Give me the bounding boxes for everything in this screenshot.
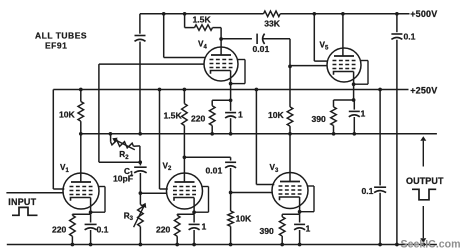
wire V2 suppressor wrap: [192, 187, 208, 215]
resistor 220 (V4 cathode): [191, 100, 215, 134]
svg-text:1: 1: [202, 221, 207, 231]
svg-text:0.1: 0.1: [97, 224, 109, 234]
svg-text:V2: V2: [163, 161, 172, 172]
junction dots on plate bus: [79, 132, 356, 136]
potentiometer R3: [124, 193, 147, 244]
resistor 390 (V3 cathode): [260, 214, 286, 244]
capacitor C1 10pF: [113, 162, 147, 193]
wire V4 screen from +500V: [164, 14, 206, 58]
svg-text:+250V: +250V: [410, 85, 437, 95]
junction dots on +500V rail: [162, 12, 399, 16]
wire V1 plate: [80, 134, 82, 182]
resistor 33K (in +500V rail): [264, 11, 281, 29]
tube V5 (EF91): [327, 48, 361, 82]
svg-text:V4: V4: [198, 40, 207, 51]
wire V4 cathode: [212, 71, 232, 103]
output pulse symbol: [412, 189, 436, 200]
node: V4 plate junction: [219, 37, 223, 41]
node: INPUT label: [8, 197, 36, 207]
capacitor 0.01 (V4 plate to V5 grid): [221, 34, 290, 54]
watermark SeekIC.com: [401, 238, 460, 250]
svg-text:0.1: 0.1: [404, 31, 416, 41]
svg-text:10pF: 10pF: [113, 174, 133, 184]
svg-text:V5: V5: [320, 41, 329, 52]
output arrow to ground rail: [420, 206, 426, 243]
potentiometer R2: [111, 134, 140, 161]
wire V2 cathode: [177, 198, 194, 215]
svg-text:10K: 10K: [236, 213, 253, 223]
+500V supply rail: [140, 13, 410, 15]
wire V3 screen from +250V: [256, 90, 274, 185]
capacitor 0.1 (+500V bypass): [391, 14, 415, 42]
svg-text:SeekIC.com: SeekIC.com: [401, 238, 460, 250]
capacitor 0.1 (+250V bypass): [362, 90, 387, 245]
wire V5 suppressor wrap: [352, 61, 368, 87]
tube V4 (EF91): [204, 47, 238, 81]
node: V4 label: [198, 40, 207, 51]
wire V5 plate from +500V: [342, 14, 344, 56]
wire V3 grid entry: [231, 192, 273, 194]
resistor 10K (V5 grid to plate bus): [268, 107, 293, 134]
wire V1 suppressor wrap: [89, 187, 105, 215]
wire V4 grid line: [99, 64, 204, 162]
svg-text:10K: 10K: [59, 109, 76, 119]
node: V2 plate junction: [183, 155, 187, 159]
capacitor 0.1 (V1 cathode): [85, 214, 109, 244]
svg-text:1.5K: 1.5K: [164, 110, 183, 120]
svg-text:+500V: +500V: [410, 9, 437, 19]
node: V3 grid junction: [229, 191, 233, 195]
wire V3 plate: [289, 134, 291, 182]
svg-text:R2: R2: [119, 150, 129, 161]
node: V5 label: [320, 41, 329, 52]
+250V supply rail: [53, 89, 408, 91]
tube V2 (EF91): [167, 173, 203, 209]
capacitor (unlabeled, +500V rail to plate bus): [135, 14, 146, 134]
junction dots on ground rail: [71, 243, 426, 247]
wire V5 screen from +500V: [314, 14, 327, 61]
svg-text:0.1: 0.1: [362, 186, 374, 196]
svg-text:V3: V3: [270, 163, 279, 174]
svg-text:1: 1: [306, 223, 311, 233]
capacitor 1 (V4 cathode): [225, 100, 243, 134]
resistor 10K (V1 plate load): [59, 90, 84, 134]
node: OUTPUT label: [406, 176, 444, 186]
junction dots on +250V rail: [79, 88, 382, 92]
wire V5 grid entry: [290, 65, 327, 67]
wire V5 grid node column: [288, 39, 292, 107]
node: C1/R3/V2-grid junction: [139, 191, 143, 195]
svg-text:220: 220: [156, 224, 171, 234]
capacitor 0.01 (V2 plate to V3 grid): [206, 162, 237, 192]
input pulse symbol: [12, 207, 38, 215]
wire V2 grid entry: [140, 192, 167, 194]
plate bus (V1/V3 plate line): [81, 133, 437, 135]
svg-text:INPUT: INPUT: [8, 197, 36, 207]
wire V1 screen from +250V rail: [53, 90, 64, 190]
capacitor 1 (V5 cathode): [349, 100, 366, 134]
wire V5 cathode: [334, 72, 356, 102]
resistor 1.5K (V4 plate load): [185, 14, 222, 55]
tube V3 (EF91): [272, 173, 308, 209]
capacitor 1 (V3 cathode): [294, 214, 310, 244]
wire V2 plate to 0.01: [184, 157, 230, 160]
svg-text:1: 1: [361, 108, 366, 118]
node: +250V label: [410, 85, 437, 95]
wire INPUT line to V1 grid: [6, 192, 63, 194]
node: +500V label: [410, 9, 437, 19]
svg-text:33K: 33K: [264, 19, 281, 29]
svg-text:R3: R3: [124, 211, 134, 222]
svg-text:1: 1: [238, 109, 243, 119]
svg-text:V1: V1: [60, 163, 69, 174]
svg-text:390: 390: [312, 114, 327, 124]
wire V3 suppressor wrap: [298, 186, 314, 214]
output arrow to plate bus: [420, 136, 426, 166]
svg-text:10K: 10K: [268, 110, 285, 120]
svg-text:0.01: 0.01: [206, 165, 223, 175]
node: V3 label: [270, 163, 279, 174]
resistor 390 (V5 cathode): [312, 100, 337, 134]
svg-text:220: 220: [191, 113, 206, 123]
resistor 10K (V3 grid leak): [228, 193, 252, 245]
svg-text:0.01: 0.01: [253, 44, 270, 54]
svg-text:1.5K: 1.5K: [193, 14, 212, 24]
svg-text:390: 390: [260, 226, 275, 236]
node: V1 label: [60, 163, 69, 174]
capacitor 1 (V2 cathode): [189, 214, 207, 244]
wire V2 screen from +250V: [160, 90, 168, 190]
wire R2 to C1 junction: [138, 146, 142, 164]
svg-text:220: 220: [52, 224, 67, 234]
tube V1 (EF91): [63, 173, 99, 209]
resistor 220 (V1 cathode): [52, 214, 75, 244]
svg-text:EF91: EF91: [45, 41, 67, 51]
wire V4 suppressor wrap: [229, 60, 245, 86]
svg-text:OUTPUT: OUTPUT: [406, 176, 444, 186]
node: V2 label: [163, 161, 172, 172]
svg-text:ALL TUBES: ALL TUBES: [35, 30, 87, 40]
resistor 1.5K (V2 plate load): [164, 90, 188, 183]
note: ALL TUBES EF91: [35, 30, 87, 50]
ground rail: [7, 244, 437, 246]
wire V1 cathode: [72, 198, 90, 215]
wire +500V bypass to ground: [396, 40, 398, 245]
wire V3 cathode: [282, 197, 299, 214]
resistor 220 (V2 cathode): [156, 214, 180, 244]
